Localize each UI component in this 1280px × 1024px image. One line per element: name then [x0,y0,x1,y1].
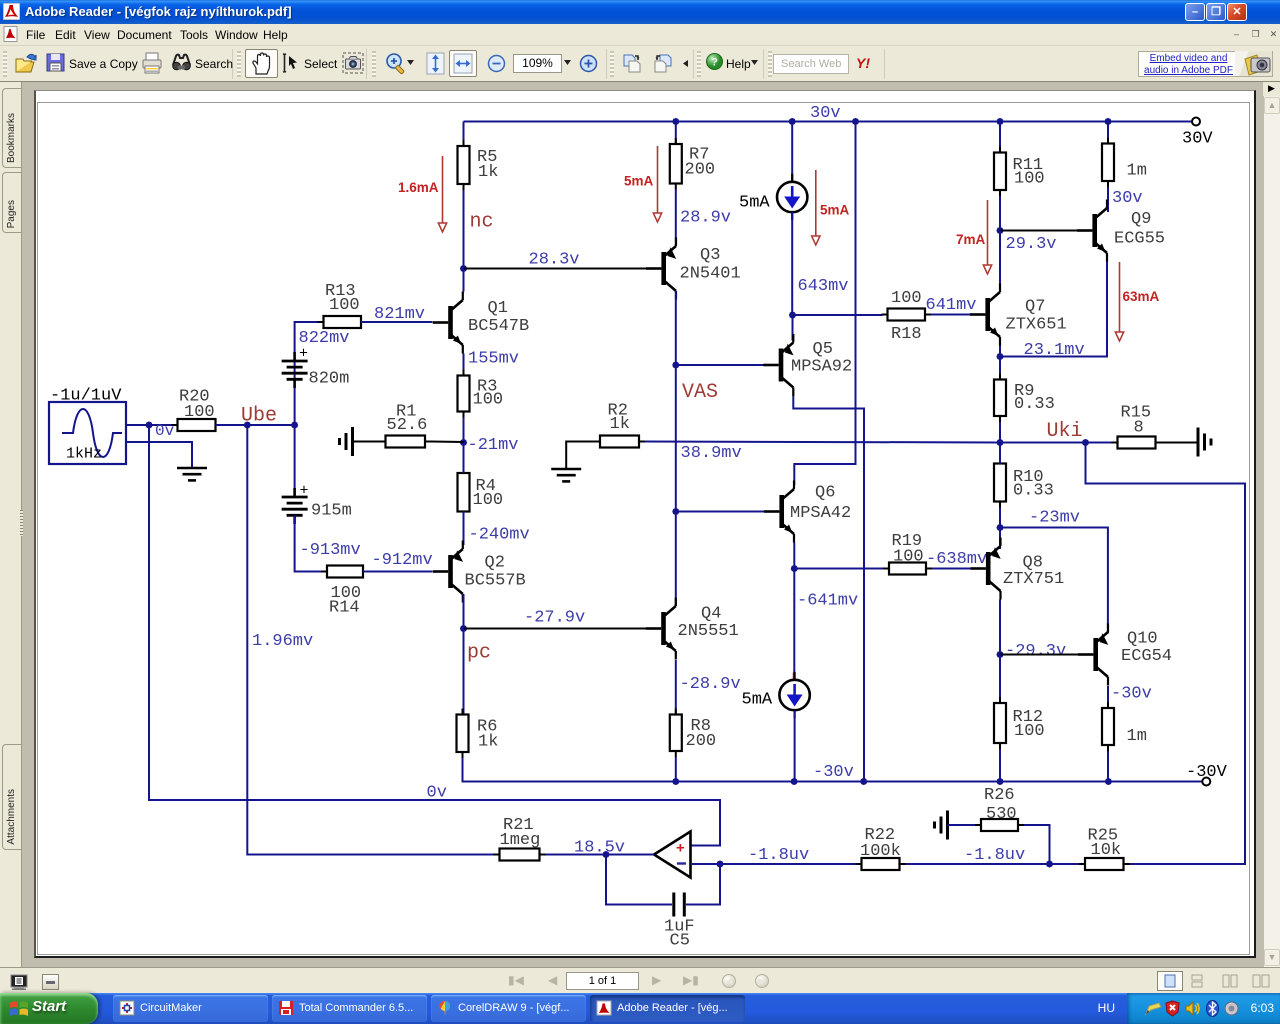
junction 0v source node [145,421,152,428]
wire R5 to +rail [463,122,465,269]
wire -23mv to Q10 emitter [1000,528,1108,634]
op-amp U1 [654,832,691,878]
wire -29.3v node to R12 [999,655,1001,704]
wire R1 ground wire [353,441,380,443]
wire R11 to 29.3v node [999,196,1001,231]
resistor R3 [458,370,504,418]
wire Uki to R15 [1000,442,1086,444]
wire R20 to Ube node [216,424,248,426]
wire R4 to -21mv node [463,443,465,474]
wire -641mv node to CS2 [793,569,795,680]
junction CS2 rail node [790,778,797,785]
wire Q1 emitter to R3 [463,354,465,376]
resistor R7 [670,138,715,190]
wire R13 to Q1 base [361,321,433,323]
wire C5 right wire [686,864,720,905]
battery V3 915m [282,483,352,525]
junction 29.3v node [996,227,1003,234]
ground R15 ground [1198,428,1211,457]
wire Q3 collector to VAS [675,291,677,365]
current annotation 5mA Q3 [624,146,662,222]
wire Q10 collector to R17 [1107,686,1109,708]
wire Ube to battery node [247,424,294,426]
wire Q5 emitter wire [792,315,794,341]
wire CS1 to +rail [791,122,793,183]
resistor R8 [670,709,716,758]
current annotation 1.6mA [398,156,447,232]
junction 18.5v node [602,851,609,858]
wire Q2 collector to pc node [463,594,465,629]
resistor R9 [994,374,1055,423]
wire pc node to R6 [463,629,465,715]
resistor R12 [994,697,1045,749]
ground R26 ground [935,811,948,840]
resistor R11 [994,147,1045,197]
wire R7 to Q3 emitter [675,190,677,247]
wire Q4 emitter to R8 [675,660,677,715]
wire R17 to -rail [1107,751,1109,782]
resistor R10 [994,458,1054,508]
resistor R6 [457,709,499,759]
current source I2 5mA [742,672,810,718]
terminal +30V [1182,118,1213,149]
wire Q8 collector to -29.3v [999,600,1001,655]
current source I2 polarity mark [793,673,795,680]
junction feedback summing node [1046,860,1053,867]
wire -29.3v to Q10 base [1000,654,1081,656]
current annotation 63mA [1115,262,1159,341]
junction Uki node [996,439,1003,446]
wire R26 ground wire [948,824,976,826]
junction R15 branch node [1082,439,1089,446]
wire 28.3v wire [464,268,650,270]
wire V2 to R13 [295,322,324,352]
resistor R20 [172,388,222,432]
junction R12 rail node [996,778,1003,785]
junction R16 rail node [1104,118,1111,125]
wire CS1 to 643mv node [791,212,793,315]
junction -23mv node [996,524,1003,531]
wire -30V rail [464,781,1203,783]
wire Q6 emitter to -641mv node [793,543,795,569]
wire R8 to -rail [675,757,677,782]
wire R3 to -21mv node [463,418,465,443]
ground R2 ground [551,469,581,481]
wire 0v reference wire [149,425,720,846]
junction op-amp minus node [716,860,723,867]
wire node to Q6 base [676,511,767,513]
resistor R22 [856,826,906,870]
wire battery V3 top wire [294,425,296,497]
wire R7 to +rail [675,122,677,145]
junction Ube node [244,421,251,428]
wire 29.3v to Q9 base [1000,230,1079,232]
transistor Q2 BC557B [433,541,526,603]
resistor R2 [594,402,645,448]
wire VAS to Q5 base [676,364,766,366]
wire R18 to Q7 base [931,314,973,316]
wire Q6 collector to +rail [794,122,855,486]
wire -27.9v wire [464,628,650,630]
current annotation 7mA [956,200,992,274]
resistor R1 [380,403,432,448]
resistor R5 [458,140,499,190]
ground R1 ground [340,427,353,456]
wire C5 left wire [606,855,672,905]
wire Q7 emitter to 23.1mv [999,346,1001,357]
wire Q5 collector to -rail [793,396,864,782]
wire Q9 emitter to 23.1mv node [1000,262,1107,357]
transistor Q3 2N5401 [646,238,741,300]
resistor R17 1m emitter [1102,702,1147,751]
resistor R19 [883,532,932,575]
current annotation 5mA CS1 [812,170,850,245]
transistor Q1 BC547B [433,292,529,354]
junction battery branch node [291,421,298,428]
wire battery V2 top wire [294,361,296,425]
source V1 sine generator [49,387,126,465]
junction VAS node [672,361,679,368]
junction -21mv node [460,439,467,446]
wire R4 to Q2 emitter [463,512,465,546]
wire Q7 collector [999,231,1001,290]
wire R16 to +rail [1107,122,1109,144]
transistor Q6 MPSA42 [764,481,851,543]
transistor Q10 ECG54 [1078,624,1172,686]
wire source output wire [126,424,178,426]
wire -641mv to R19 [794,568,884,570]
wire Uki node to R15 [1086,442,1114,444]
wire R10 to -23mv node [999,508,1001,528]
resistor R26 [975,786,1024,831]
wire Q8 emitter wire [999,528,1001,550]
junction -641mv node [791,565,798,572]
wire R1 to -21mv node [431,441,464,444]
junction -29.3v node [996,651,1003,658]
junction R17 rail node [1105,778,1112,785]
resistor R16 1m emitter [1102,138,1147,188]
transistor Q8 ZTX751 [971,538,1065,600]
wire +30V rail [464,121,1193,123]
wire Q1 collector [463,269,465,292]
junction 643mv node [789,311,796,318]
wire source return wire [126,442,192,468]
capacitor C5 [664,893,695,951]
wire R22 to op-amp minus [720,863,856,865]
wire R21 to Ube node [247,425,493,855]
wire V3 to R14 [295,515,327,571]
junction Q5 collector rail node [860,778,867,785]
wire VAS to Q6 base node [675,365,677,512]
resistor R13 [318,282,368,328]
transistor Q5 MPSA92 [763,334,852,396]
resistor R4 [458,467,504,518]
wire 643mv to R18 [793,314,883,316]
junction R8 rail node [672,778,679,785]
transistor Q4 2N5551 [646,598,739,660]
junction R11 rail node [996,118,1003,125]
resistor R15 [1112,404,1162,449]
wire R6 to -rail [463,758,464,782]
battery V2 820m [282,346,350,389]
junction 23.1mv node [996,353,1003,360]
wire op-amp output wire [606,854,654,856]
wire CS2 to -rail [794,711,796,782]
transistor Q9 ECG55 [1077,200,1165,262]
wire R14 to Q2 base [363,571,433,573]
wire Uki to R10 [999,443,1001,464]
junction CS1 rail node [789,118,796,125]
junction Q6 base node [672,508,679,515]
wire R16 to Q9 collector [1107,187,1109,212]
ground source ground [177,468,207,480]
R2 ground riser [566,442,594,470]
wire Uki feedback drop [1086,443,1246,865]
wire R11 to +rail [999,122,1001,153]
junction 28.3v node [460,265,467,272]
svg-text:?: ? [711,57,718,69]
wire R15 to ground [1162,442,1198,444]
wire R19 to Q8 base [932,568,974,570]
resistor R21 [494,816,546,861]
wire R22 to summing node [906,863,1050,865]
resistor R25 [1079,827,1130,871]
wire R21 to 18.5v node [546,854,607,856]
junction Q6 collector rail node [852,118,859,125]
wire op-amp minus input wire [691,863,721,865]
wire R26 to summing node [1024,825,1050,864]
junction R7 rail node [672,118,679,125]
wire output rail [645,442,1000,443]
wire R9 to Uki node [999,422,1001,443]
junction pc node [460,625,467,632]
terminal -30V [1186,763,1228,786]
wire R25 to summing node [1050,863,1080,865]
resistor R14 [321,566,369,618]
wire spine to Q4 collector [675,512,677,607]
transistor Q7 ZTX651 [970,284,1067,346]
resistor R18 [882,289,932,344]
wire R12 to -rail [999,749,1001,782]
current source I1 5mA [739,174,807,220]
wire Q7 to R9 [999,357,1001,380]
